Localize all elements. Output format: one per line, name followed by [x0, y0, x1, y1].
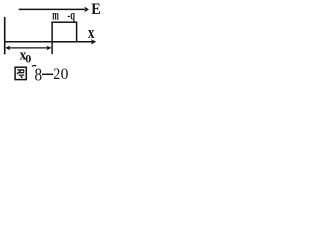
- tick below box left edge: [51, 42, 53, 54]
- field arrow E shaft: [19, 8, 85, 10]
- svg-text:-q: -q: [67, 7, 75, 22]
- left wall: [4, 17, 6, 55]
- svg-text:2: 2: [53, 66, 60, 82]
- dimension arrow shaft: [7, 47, 51, 49]
- svg-text:E: E: [91, 1, 101, 18]
- x-axis arrowhead: [91, 39, 96, 44]
- x-axis: [5, 41, 93, 43]
- caption char tu (drawn): [15, 67, 26, 79]
- dimension arrow left head: [5, 46, 10, 51]
- svg-text:m: m: [52, 8, 59, 23]
- svg-text:x: x: [88, 23, 95, 42]
- block (box): [52, 22, 77, 42]
- svg-text:0: 0: [61, 66, 69, 82]
- svg-text:8: 8: [35, 65, 43, 82]
- svg-text:0: 0: [25, 52, 31, 66]
- field arrow E head: [84, 7, 89, 13]
- dimension arrow right head: [47, 46, 52, 51]
- stray mark: [32, 65, 36, 68]
